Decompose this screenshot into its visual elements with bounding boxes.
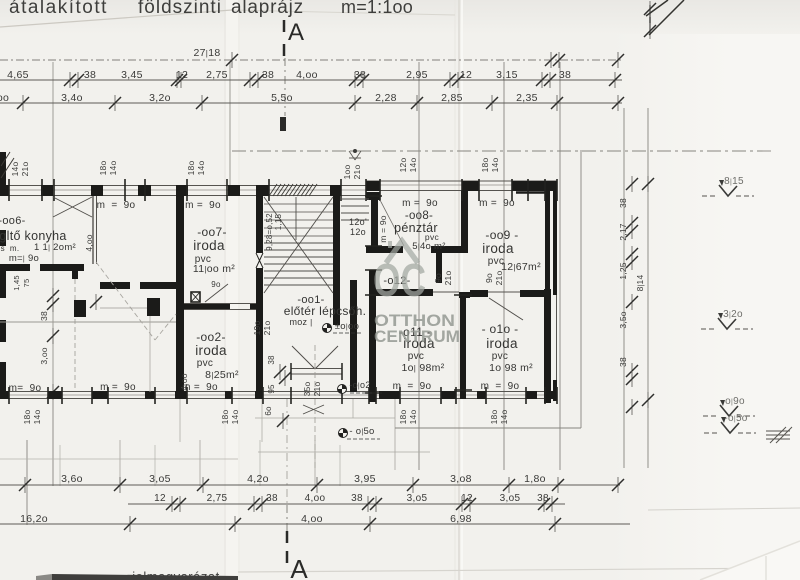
svg-text:14o: 14o [108, 161, 118, 176]
svg-text:3,o5: 3,o5 [500, 493, 521, 504]
svg-text:2,28: 2,28 [375, 92, 397, 104]
svg-text:m = 9o: m = 9o [97, 200, 136, 211]
svg-text:4,2o: 4,2o [247, 473, 269, 485]
svg-text:OC: OC [373, 254, 426, 306]
svg-text:2,95: 2,95 [406, 69, 428, 81]
svg-text:12: 12 [154, 493, 166, 504]
svg-text:2,17: 2,17 [618, 223, 628, 240]
svg-text:14o: 14o [408, 158, 418, 173]
svg-text:-oo2-: -oo2- [196, 330, 226, 344]
svg-text:3,4o: 3,4o [61, 92, 83, 104]
svg-text:-oo9 -: -oo9 - [485, 228, 518, 242]
svg-text:A: A [290, 554, 308, 580]
svg-text:5|4o m²: 5|4o m² [412, 241, 446, 252]
svg-text:14o: 14o [32, 410, 42, 425]
svg-text:jelmagyarázat: jelmagyarázat [131, 569, 219, 580]
svg-text:21o: 21o [262, 321, 272, 336]
svg-text:12o': 12o' [349, 217, 367, 227]
svg-text:9o: 9o [433, 273, 443, 283]
svg-text:pvc: pvc [492, 351, 508, 362]
svg-text:6,98: 6,98 [450, 513, 472, 525]
svg-text:4,oo: 4,oo [305, 493, 326, 504]
svg-text:A: A [288, 19, 304, 46]
svg-text:m = 9o: m = 9o [479, 198, 515, 209]
svg-text:14o: 14o [230, 410, 240, 425]
svg-text:18o: 18o [22, 410, 32, 425]
svg-text:1 1| 2om²: 1 1| 2om² [34, 242, 76, 253]
svg-text:14o: 14o [10, 162, 20, 177]
svg-text:27|18: 27|18 [194, 47, 221, 59]
svg-text:9o: 9o [211, 280, 221, 289]
svg-text:2,75: 2,75 [206, 69, 228, 81]
svg-text:5,5o: 5,5o [271, 92, 293, 104]
svg-text:8|14: 8|14 [635, 275, 645, 292]
svg-text:iroda: iroda [486, 336, 518, 351]
svg-text:m = 9o: m = 9o [100, 382, 136, 393]
svg-text:21o: 21o [20, 162, 30, 177]
svg-text:18o: 18o [98, 161, 108, 176]
svg-text:1,45: 1,45 [12, 275, 21, 290]
svg-text:-o|o2: -o|o2 [349, 380, 370, 390]
svg-text:gltő konyha: gltő konyha [0, 229, 67, 243]
svg-text:iroda: iroda [195, 343, 227, 358]
svg-text:12o: 12o [350, 227, 366, 237]
svg-text:oo: oo [0, 92, 9, 104]
svg-text:1,15: 1,15 [274, 213, 283, 230]
svg-text:38: 38 [537, 493, 549, 504]
svg-text:1,25: 1,25 [618, 262, 628, 279]
svg-text:38: 38 [266, 493, 278, 504]
svg-text:35o: 35o [302, 382, 312, 397]
svg-text:s m.: s m. [1, 244, 20, 253]
svg-text:3,5o: 3,5o [618, 311, 628, 328]
svg-text:9o: 9o [484, 273, 494, 283]
svg-text:CENTRUM: CENTRUM [374, 327, 460, 346]
svg-text:6o: 6o [264, 406, 273, 416]
svg-text:földszinti: földszinti [138, 0, 222, 18]
svg-text:3,o8: 3,o8 [450, 473, 472, 485]
svg-text:21o: 21o [312, 382, 322, 397]
svg-text:m = 9o: m = 9o [402, 198, 438, 209]
svg-text:1o 98 m²: 1o 98 m² [489, 362, 533, 374]
svg-text:18o: 18o [398, 410, 408, 425]
svg-text:- o1o -: - o1o - [482, 322, 519, 336]
svg-text:12: 12 [176, 69, 188, 81]
svg-text:38: 38 [84, 69, 96, 81]
svg-text:38: 38 [351, 493, 363, 504]
svg-text:4,oo: 4,oo [84, 234, 94, 251]
svg-text:m=1:1oo: m=1:1oo [341, 0, 413, 17]
svg-text:3,oo: 3,oo [39, 347, 49, 364]
svg-text:m = 9o: m = 9o [182, 382, 218, 393]
svg-text:3|2o: 3|2o [723, 309, 743, 320]
svg-text:9,28=o,52: 9,28=o,52 [265, 213, 274, 251]
svg-text:38: 38 [559, 69, 571, 81]
svg-text:38: 38 [354, 69, 366, 81]
svg-text:38: 38 [618, 357, 628, 367]
svg-text:pvc: pvc [197, 358, 213, 369]
svg-text:12|67m²: 12|67m² [501, 261, 541, 273]
svg-text:előtér lépcsőh.: előtér lépcsőh. [284, 304, 367, 318]
svg-text:2,85: 2,85 [441, 92, 463, 104]
svg-text:14o: 14o [499, 410, 509, 425]
svg-text:21o: 21o [352, 165, 362, 180]
svg-text:iroda: iroda [193, 238, 225, 253]
svg-text:21o: 21o [443, 271, 453, 286]
svg-text:3,o5: 3,o5 [407, 493, 428, 504]
svg-text:o|9o: o|9o [725, 396, 745, 407]
svg-text:95: 95 [267, 384, 276, 394]
svg-text:38: 38 [39, 311, 49, 321]
svg-text:2,35: 2,35 [516, 92, 538, 104]
svg-text:12o: 12o [398, 158, 408, 173]
svg-text:8|15: 8|15 [724, 176, 744, 187]
svg-text:19o: 19o [252, 321, 262, 336]
svg-text:4,oo: 4,oo [296, 69, 318, 81]
svg-text:3,o5: 3,o5 [149, 473, 171, 485]
svg-text:14o: 14o [408, 410, 418, 425]
svg-text:3,15: 3,15 [496, 69, 518, 81]
svg-text:4,65: 4,65 [7, 69, 29, 81]
svg-text:m = 9o: m = 9o [185, 200, 221, 211]
svg-text:-o|5o: -o|5o [724, 413, 747, 424]
svg-text:18o: 18o [220, 410, 230, 425]
svg-text:38: 38 [267, 355, 276, 365]
svg-text:moz |: moz | [289, 317, 312, 327]
svg-text:m = 9o: m = 9o [481, 381, 520, 392]
svg-text:14o: 14o [490, 158, 500, 173]
svg-text:1o| 98m²: 1o| 98m² [401, 362, 444, 374]
svg-text:átalakított: átalakított [9, 0, 108, 18]
svg-text:-oo6-: -oo6- [0, 215, 26, 227]
svg-text:12: 12 [460, 69, 472, 81]
svg-text:18o: 18o [480, 158, 490, 173]
svg-text:75: 75 [22, 279, 31, 288]
svg-text:8|25m²: 8|25m² [205, 369, 239, 381]
svg-text:16,2o: 16,2o [20, 513, 48, 525]
svg-text:alaprájz: alaprájz [231, 0, 304, 18]
svg-text:14o: 14o [196, 161, 206, 176]
svg-text:m = 9o: m = 9o [393, 381, 432, 392]
svg-text:12: 12 [461, 493, 473, 504]
svg-text:18o: 18o [489, 410, 499, 425]
svg-text:m = 9o: m = 9o [378, 215, 388, 242]
svg-text:m= 9o: m= 9o [9, 383, 42, 394]
svg-text:1,8o: 1,8o [524, 473, 546, 485]
svg-text:38: 38 [618, 198, 628, 208]
svg-text:11|oo m²: 11|oo m² [193, 263, 235, 275]
svg-text:iroda: iroda [482, 241, 514, 256]
svg-text:1oo: 1oo [342, 165, 352, 180]
svg-text:2,75: 2,75 [207, 493, 228, 504]
svg-text:38: 38 [262, 69, 274, 81]
svg-text:3,6o: 3,6o [61, 473, 83, 485]
svg-text:3,95: 3,95 [354, 473, 376, 485]
svg-text:4,oo: 4,oo [301, 513, 323, 525]
svg-text:18o: 18o [186, 161, 196, 176]
svg-text:3,45: 3,45 [121, 69, 143, 81]
svg-text:-oo7-: -oo7- [197, 225, 227, 239]
svg-text:pvc: pvc [408, 351, 424, 362]
svg-text:3,2o: 3,2o [149, 92, 171, 104]
